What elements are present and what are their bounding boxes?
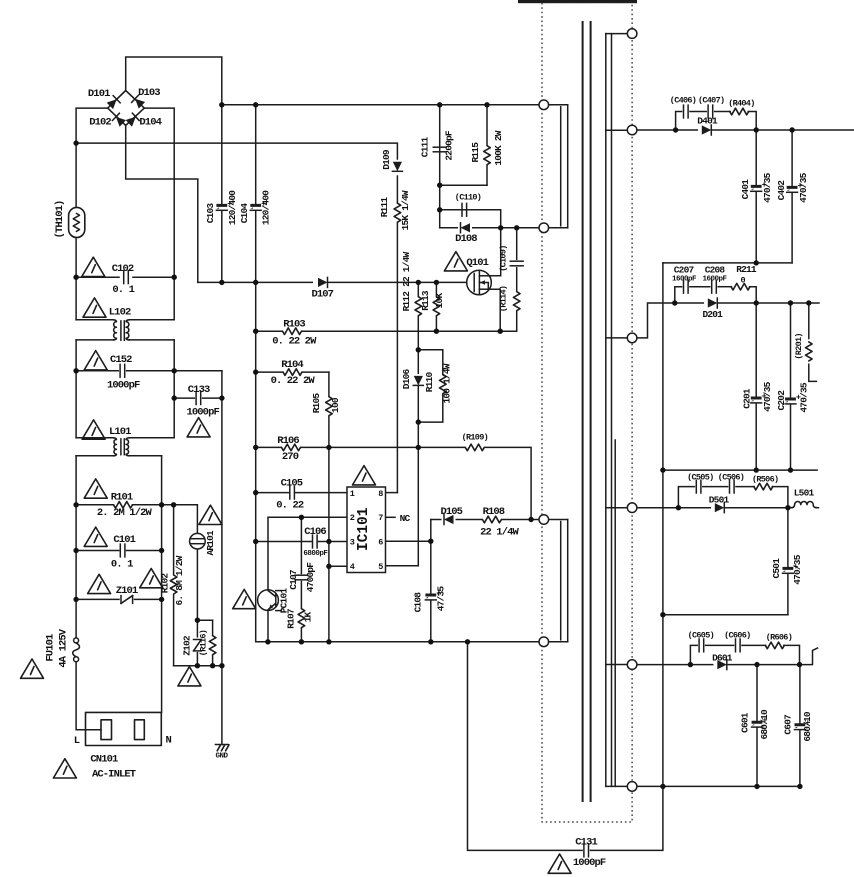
wire L102 bottom leads (76, 339, 113, 341)
svg-text:(R114): (R114) (498, 286, 508, 312)
diode D601 (714, 662, 728, 667)
svg-text:470/35: 470/35 (762, 381, 773, 412)
svg-text:4700pF: 4700pF (305, 562, 316, 593)
choke L102 core (120, 321, 122, 340)
svg-text:(C407): (C407) (698, 95, 724, 105)
svg-text:2: 2 (350, 513, 355, 523)
svg-text:C501: C501 (771, 558, 782, 579)
svg-text:R105: R105 (311, 393, 322, 414)
resistor R506 (754, 483, 773, 490)
svg-text:D501: D501 (709, 495, 730, 506)
wire L102 top leads (76, 319, 113, 321)
wire C107/R107 column (300, 517, 302, 573)
svg-text:(C605): (C605) (688, 631, 714, 641)
svg-text:C103: C103 (205, 203, 216, 224)
svg-text:(R506): (R506) (752, 474, 778, 484)
svg-text:FU101: FU101 (45, 634, 57, 662)
transformer primary winding upper-left (549, 104, 568, 106)
wire C401 column (755, 130, 757, 185)
wire bottom secondary rail y=786.4 (637, 785, 800, 787)
resistor R104 (283, 371, 302, 374)
svg-text:Z101: Z101 (116, 585, 138, 597)
choke L101 core (120, 439, 122, 455)
capacitor C103 (216, 204, 227, 210)
connector CN101 body (86, 712, 162, 745)
diode bridge diamond (108, 91, 145, 126)
resistor R201 (806, 342, 813, 361)
capacitor C208 (712, 280, 717, 293)
inductor L501 (790, 502, 816, 508)
svg-text:R102: R102 (159, 573, 170, 594)
ground symbol GND (215, 744, 228, 746)
wire D601 output row (637, 648, 818, 665)
svg-text:8: 8 (378, 489, 383, 499)
wire D401 output row (637, 129, 854, 131)
wire startup rail y=143 (76, 143, 397, 159)
resistor R114 (515, 292, 519, 312)
wire R201 branch (808, 303, 810, 339)
capacitor C501 (783, 567, 794, 573)
svg-text:D108: D108 (455, 233, 477, 245)
svg-text:C201: C201 (741, 388, 752, 409)
svg-text:GND: GND (215, 753, 228, 761)
transformer right pin stubs (606, 33, 628, 35)
wire C601 column (756, 665, 758, 721)
svg-text:R108: R108 (483, 506, 505, 518)
fuse FU101 (74, 638, 79, 643)
wire C101 row (76, 550, 119, 552)
resistor R116 (211, 636, 215, 656)
capacitor C111 (433, 147, 446, 152)
transformer T101 dashed outline (542, 3, 632, 823)
choke L101 left winding (113, 438, 116, 456)
svg-text:C107: C107 (288, 569, 299, 590)
svg-text:10K: 10K (434, 293, 445, 309)
capacitor C101 (120, 544, 125, 557)
svg-text:0. 1: 0. 1 (112, 284, 134, 296)
choke L101 right winding (126, 438, 129, 456)
wire C501 column (787, 508, 789, 567)
svg-text:R101: R101 (111, 492, 133, 504)
text labels horizontal (74, 87, 815, 869)
diode D107 (313, 280, 328, 285)
optocoupler PC101 body (258, 590, 279, 611)
svg-text:C152: C152 (110, 354, 132, 366)
capacitor C601 (752, 721, 763, 727)
svg-text:D401: D401 (697, 116, 718, 127)
svg-text:(C110): (C110) (455, 193, 481, 203)
svg-text:0. 22 2W: 0. 22 2W (272, 335, 317, 347)
wire R115 column (486, 105, 488, 185)
capacitor C102 (124, 271, 129, 284)
wire Z102 bottom rail (174, 665, 222, 667)
svg-text:120/400: 120/400 (227, 190, 238, 225)
resistor R101 (114, 502, 133, 509)
wire C505/C506/R506 bypass (678, 487, 694, 508)
svg-text:(R109): (R109) (462, 432, 488, 442)
wire AR101 to Z102 (196, 549, 198, 666)
svg-text:100: 100 (330, 397, 341, 413)
resistor R606 (765, 642, 784, 649)
wire source rail y=331.2 (256, 330, 517, 332)
capacitor C202 (785, 398, 796, 404)
wire Z102 top bar (197, 619, 212, 621)
svg-text:22 1/4W: 22 1/4W (480, 527, 519, 539)
wire right column L102 to L101 (173, 340, 175, 438)
resistor R112 (417, 297, 421, 317)
svg-text:(R404): (R404) (728, 99, 754, 109)
wire pin2 row (268, 517, 347, 590)
svg-text:C105: C105 (281, 478, 303, 490)
svg-text:D104: D104 (139, 116, 161, 128)
diode D103 (132, 95, 146, 109)
wire left column L102 to L101 (75, 340, 77, 438)
svg-text:IC101: IC101 (356, 507, 372, 551)
wire primary bottom rail (256, 641, 539, 643)
svg-text:(C109): (C109) (498, 245, 508, 271)
svg-text:R113: R113 (420, 290, 431, 311)
wire bridge right vertex down (144, 108, 174, 320)
resistor R106 (282, 446, 301, 449)
wire mid ground rail y=470.1 (663, 469, 817, 471)
capacitor C401 (751, 185, 762, 191)
svg-text:2. 2M 1/2W: 2. 2M 1/2W (97, 507, 153, 519)
wire bridge left vertex to AC-L column (76, 108, 108, 207)
diode D201 (704, 301, 718, 306)
svg-text:L: L (74, 735, 80, 747)
wire R101 row (76, 504, 113, 506)
transformer pin circles left (539, 100, 549, 110)
svg-text:C102: C102 (112, 263, 134, 275)
capacitor C109 (510, 261, 523, 266)
mosfet Q101 channel bar (478, 272, 480, 294)
svg-text:7: 7 (378, 513, 383, 523)
wire Q101 drain (491, 228, 501, 276)
svg-text:Q101: Q101 (466, 257, 488, 269)
connector CN101 pin L (101, 720, 112, 740)
mosfet Q101 drain/source/body links (479, 275, 491, 277)
wire left column L101 to CN101 (75, 456, 77, 638)
svg-text:C131: C131 (575, 836, 597, 848)
svg-text:C401: C401 (740, 179, 751, 200)
svg-text:R211: R211 (736, 264, 757, 275)
svg-text:(R201): (R201) (794, 333, 804, 359)
svg-text:C101: C101 (113, 534, 135, 546)
wire fuse bottom to CN101 (76, 662, 101, 730)
wire C103 column (221, 105, 223, 204)
optocoupler PC101 transistor (275, 594, 277, 607)
svg-text:100K 2W: 100K 2W (493, 130, 504, 165)
wire C402 column (791, 130, 793, 186)
wire C133 row (174, 397, 194, 399)
wire D108 row (440, 227, 539, 229)
choke L102 left winding (113, 320, 116, 340)
wire C111/R115 bottom bar (440, 184, 487, 186)
capacitor C131 (584, 844, 589, 857)
wire C201 column (755, 303, 757, 397)
svg-text:470/35: 470/35 (798, 172, 809, 203)
capacitor C106 (313, 535, 318, 548)
wire C108 column (430, 520, 432, 594)
arrestor AR101 (190, 533, 206, 549)
wire bridge top to C103 column (126, 57, 222, 105)
capacitor C104 (250, 204, 261, 210)
resistor R107 (300, 609, 304, 629)
svg-text:R110: R110 (424, 372, 435, 393)
svg-text:1600pF: 1600pF (702, 276, 727, 284)
wire Z101 row (76, 598, 119, 600)
svg-text:100 1/4W: 100 1/4W (442, 363, 453, 403)
resistor R102 (172, 575, 176, 595)
svg-text:(R606): (R606) (766, 633, 792, 643)
capacitor C207 (684, 280, 689, 293)
resistor R110 (441, 375, 445, 395)
wire N column L101 to CN101 (161, 456, 163, 713)
svg-text:R111: R111 (379, 197, 390, 218)
svg-text:C202: C202 (776, 390, 787, 411)
capacitor C606 (736, 639, 741, 652)
transformer secondary winding lines right (605, 34, 607, 787)
svg-text:C207: C207 (674, 265, 695, 276)
wire gnd drop (221, 666, 223, 745)
wire C501 ground rail y=614.7 (663, 614, 788, 616)
wire D106 column (417, 282, 419, 565)
capacitor C605 (699, 639, 704, 652)
svg-text:D109: D109 (381, 149, 392, 170)
svg-text:(C506): (C506) (718, 472, 744, 482)
wire C111 column (439, 105, 441, 185)
wire R116 branch (212, 620, 214, 666)
wire D201 output row (637, 303, 819, 338)
svg-text:C106: C106 (304, 526, 326, 538)
resistor R103 (283, 330, 302, 333)
scan artifact top bar (518, 0, 637, 3)
wire secondary ground bus x=662.9 (662, 263, 664, 787)
diode D101 (106, 96, 120, 110)
svg-text:1K: 1K (303, 612, 314, 623)
svg-text:4: 4 (350, 562, 355, 572)
text labels rotated (45, 130, 814, 742)
svg-text:470/35: 470/35 (792, 554, 803, 585)
svg-text:D105: D105 (440, 506, 462, 518)
svg-text:CN101: CN101 (90, 754, 118, 766)
wire main + rail y=104.8 (222, 104, 539, 106)
svg-text:D106: D106 (401, 369, 412, 390)
svg-text:D101: D101 (88, 88, 110, 100)
resistor R211 (731, 283, 750, 290)
diode D105 (442, 517, 456, 522)
capacitor C133 (196, 392, 201, 405)
svg-text:1000pF: 1000pF (186, 407, 219, 419)
svg-text:1600pF: 1600pF (672, 276, 697, 284)
wire R105/pin4 column (328, 372, 330, 642)
svg-text:470/35: 470/35 (798, 382, 809, 413)
svg-text:C208: C208 (705, 265, 726, 276)
svg-text:R112 22 1/4W: R112 22 1/4W (401, 251, 412, 311)
svg-text:(R116): (R116) (199, 630, 209, 656)
capacitor C201 (751, 397, 762, 403)
diode D109 (392, 162, 402, 172)
wire D105/R108 row (431, 519, 539, 521)
svg-text:1000pF: 1000pF (107, 380, 140, 392)
svg-text:R107: R107 (286, 608, 297, 629)
svg-text:15K 1/4W: 15K 1/4W (400, 190, 411, 230)
diode D104 (125, 113, 139, 127)
svg-text:L501: L501 (794, 488, 815, 499)
choke L102 right winding (126, 320, 129, 340)
wire C202 column (790, 303, 792, 398)
zener Z102 (196, 638, 200, 653)
IC101 box (347, 487, 386, 573)
resistor R109 (465, 446, 484, 449)
transformer winding lower-left (549, 519, 568, 521)
capacitor C105 (290, 486, 295, 499)
wire gnd column x=221.9 (221, 371, 223, 666)
transformer core (582, 22, 584, 801)
connector CN101 pin N (135, 720, 145, 740)
wire pin8 stub (386, 492, 398, 494)
wire C152 row (76, 370, 118, 372)
svg-text:L102: L102 (109, 307, 131, 319)
capacitor C110 (462, 203, 467, 216)
mosfet Q101 body (467, 270, 492, 295)
wire pin6 row (386, 540, 431, 542)
svg-text:C601: C601 (740, 712, 751, 733)
warning triangles (21, 252, 572, 874)
wire C105 pin1 row (256, 492, 289, 494)
svg-text:0. 1: 0. 1 (111, 558, 133, 570)
svg-text:C104: C104 (239, 203, 250, 224)
svg-text:D601: D601 (712, 653, 733, 664)
wire C102 row (76, 276, 119, 278)
svg-text:R103: R103 (283, 318, 305, 330)
resistor R404 (730, 108, 749, 115)
svg-text:D201: D201 (702, 309, 723, 320)
wire R102 column (173, 505, 175, 666)
svg-text:C402: C402 (776, 180, 787, 201)
svg-text:4A 125V: 4A 125V (58, 628, 70, 667)
wire pin4 stub (329, 565, 347, 567)
svg-text:0: 0 (740, 275, 745, 285)
wire R104 row (256, 371, 329, 373)
diode D106 (416, 374, 420, 385)
capacitor C505 (696, 480, 701, 493)
capacitor C152 (120, 364, 125, 377)
wire primary return to C131 (468, 642, 583, 851)
wire R113 column (435, 282, 437, 331)
wire IC101 startup column to pin8 (396, 176, 398, 493)
wire pin7 NC stub (386, 516, 396, 518)
resistor R108 (482, 518, 501, 521)
mosfet Q101 gate bar (473, 274, 475, 292)
svg-text:6: 6 (378, 538, 383, 548)
svg-text:(C505): (C505) (687, 472, 713, 482)
svg-text:120/400: 120/400 (261, 190, 272, 225)
svg-text:5: 5 (378, 562, 383, 572)
wire Q101 source (491, 289, 500, 331)
svg-text:0. 22 2W: 0. 22 2W (271, 375, 316, 387)
capacitor C506 (730, 480, 735, 493)
wire PC101 emitter down (267, 610, 269, 641)
svg-text:D103: D103 (138, 87, 160, 99)
capacitor C108 (425, 594, 436, 600)
wire C104 column / left IC rail x=255.7 (255, 105, 257, 204)
svg-text:R104: R104 (281, 359, 303, 371)
svg-text:R115: R115 (470, 142, 481, 163)
wire R106-R109 row (256, 447, 531, 519)
resistor R115 (485, 146, 489, 166)
diode D401 (698, 128, 712, 133)
svg-text:47/35: 47/35 (436, 586, 447, 612)
wire L101 top leads (76, 437, 113, 439)
svg-text:N: N (165, 734, 171, 746)
wire snubber C109/R114 column (516, 228, 518, 259)
resistor R111 (396, 203, 400, 223)
thermistor TH101 element (73, 213, 79, 231)
wire C406/C407/R404 bypass (676, 112, 682, 131)
svg-text:680/10: 680/10 (759, 709, 770, 740)
svg-text:C133: C133 (188, 384, 210, 396)
capacitor C107 (295, 575, 308, 580)
wire C607 column (799, 665, 801, 724)
svg-text:D102: D102 (89, 116, 111, 128)
svg-text:(TH101): (TH101) (54, 201, 66, 239)
svg-text:470/35: 470/35 (762, 172, 773, 203)
svg-text:C607: C607 (782, 714, 793, 735)
svg-text:L101: L101 (109, 426, 131, 438)
wire C401/C402 ground rail (663, 262, 792, 264)
svg-text:1000pF: 1000pF (573, 857, 606, 869)
svg-text:2200pF: 2200pF (444, 130, 455, 161)
thermistor TH101 capsule (69, 207, 85, 237)
svg-text:3: 3 (350, 538, 355, 548)
svg-text:D107: D107 (311, 289, 333, 301)
svg-text:C108: C108 (412, 592, 423, 613)
svg-text:NC: NC (400, 513, 411, 524)
wire AC-L column TH101 to L102 (75, 238, 77, 320)
wire pin3 row (256, 541, 311, 543)
svg-text:AR101: AR101 (205, 530, 216, 556)
resistor R105 (327, 397, 331, 417)
svg-text:AC-INLET: AC-INLET (92, 769, 136, 781)
diode D102 (112, 113, 126, 127)
capacitor C406 (684, 105, 689, 118)
svg-text:6800pF: 6800pF (303, 550, 328, 558)
diode D501 (711, 505, 725, 510)
svg-text:270: 270 (282, 451, 299, 463)
wire R110 branch (418, 350, 443, 422)
wire C110 row (439, 185, 441, 228)
wire bridge bottom vertex to D107 row (126, 125, 198, 282)
svg-text:(C606): (C606) (724, 631, 750, 641)
wire D501 output row (637, 507, 792, 509)
wire D107 gate row (198, 281, 475, 283)
svg-text:6. 8M 1/2W: 6. 8M 1/2W (174, 555, 185, 605)
zener Z101 (120, 596, 122, 604)
capacitor C607 (795, 723, 806, 729)
svg-text:C111: C111 (419, 137, 430, 158)
svg-text:1: 1 (350, 489, 355, 499)
svg-text:R106: R106 (277, 435, 299, 447)
svg-text:(C406): (C406) (670, 95, 696, 105)
svg-text:Z102: Z102 (181, 635, 192, 656)
capacitor C407 (708, 105, 713, 118)
wire C207/C208/R211 bypass (675, 287, 682, 303)
svg-text:680/10: 680/10 (802, 711, 813, 742)
wire pin5 row (386, 565, 419, 567)
resistor R113 (435, 297, 439, 317)
capacitor C402 (787, 186, 798, 192)
